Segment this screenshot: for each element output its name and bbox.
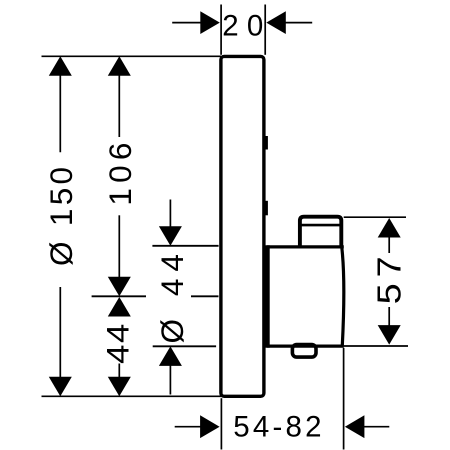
dim D150 arrow down bbox=[49, 377, 72, 397]
extension line bottom-left (plate bottom) bbox=[42, 395, 222, 397]
dim D44 arrow up (outside below) bbox=[159, 346, 182, 366]
dim 54-82 left arrow bbox=[175, 426, 202, 428]
extension line vertical 54-82 left bbox=[220, 398, 222, 449]
extension line 57 top right bbox=[344, 216, 406, 218]
svg-text:54-82: 54-82 bbox=[233, 411, 324, 444]
dim 54-82 right arrow bbox=[362, 426, 389, 428]
dim 106 arrow down bbox=[108, 277, 131, 297]
dim 57 arrow down bbox=[378, 325, 401, 345]
dim 44 left arrow down bbox=[108, 377, 131, 397]
svg-text:Ø 150: Ø 150 bbox=[43, 164, 79, 266]
bump tab lower on plate right edge bbox=[265, 201, 268, 216]
svg-text:44: 44 bbox=[101, 322, 136, 364]
stop button tab upper bbox=[300, 217, 341, 249]
bottom tab rounded bbox=[292, 345, 316, 358]
stop button tab inner line bbox=[302, 224, 340, 227]
dim 106 line bottom segment bbox=[118, 215, 120, 278]
valve body outline bbox=[267, 247, 344, 346]
dim D44 lower stem bbox=[169, 365, 171, 395]
extension line vertical 54-82 right bbox=[343, 348, 345, 450]
dim 44 left line mid segment bbox=[118, 364, 120, 378]
extension line vertical 20 left bbox=[220, 5, 222, 55]
dim 57 arrow up bbox=[378, 218, 401, 238]
dim 20 left arrow bbox=[172, 22, 202, 24]
extension line vertical 20 right bbox=[264, 5, 266, 55]
dim 57 upper stem bbox=[388, 237, 390, 254]
extension line body top left (for dim 44 diameter) bbox=[152, 245, 218, 247]
dim D150 arrow up bbox=[49, 56, 72, 76]
dim 106 line top segment bbox=[118, 75, 120, 138]
dim 20 right arrow bbox=[285, 22, 312, 24]
dim 57 lower stem bbox=[388, 307, 390, 326]
dim 106 arrow up bbox=[108, 56, 131, 76]
valve body right edge curved bbox=[342, 248, 344, 346]
svg-text:2 0: 2 0 bbox=[222, 10, 263, 43]
extension line top-left (plate top) bbox=[42, 55, 222, 57]
svg-text:106: 106 bbox=[102, 137, 138, 205]
dim D150 line bottom segment bbox=[59, 287, 61, 378]
svg-text:57: 57 bbox=[371, 251, 408, 305]
dim D44 arrow down (outside above) bbox=[159, 226, 182, 246]
dim D150 line top segment bbox=[59, 75, 61, 153]
dim D44 upper stem bbox=[169, 200, 171, 228]
wall plate (side view, 150x20) bbox=[221, 56, 264, 396]
center line of valve at 296 bbox=[92, 295, 219, 297]
bump tab upper on plate right edge bbox=[265, 136, 268, 150]
extension line 57 bottom right bbox=[344, 345, 408, 347]
dim 44 left arrow up bbox=[108, 297, 131, 317]
extension line body bottom left bbox=[153, 345, 216, 347]
svg-text:Ø 44: Ø 44 bbox=[154, 247, 190, 343]
